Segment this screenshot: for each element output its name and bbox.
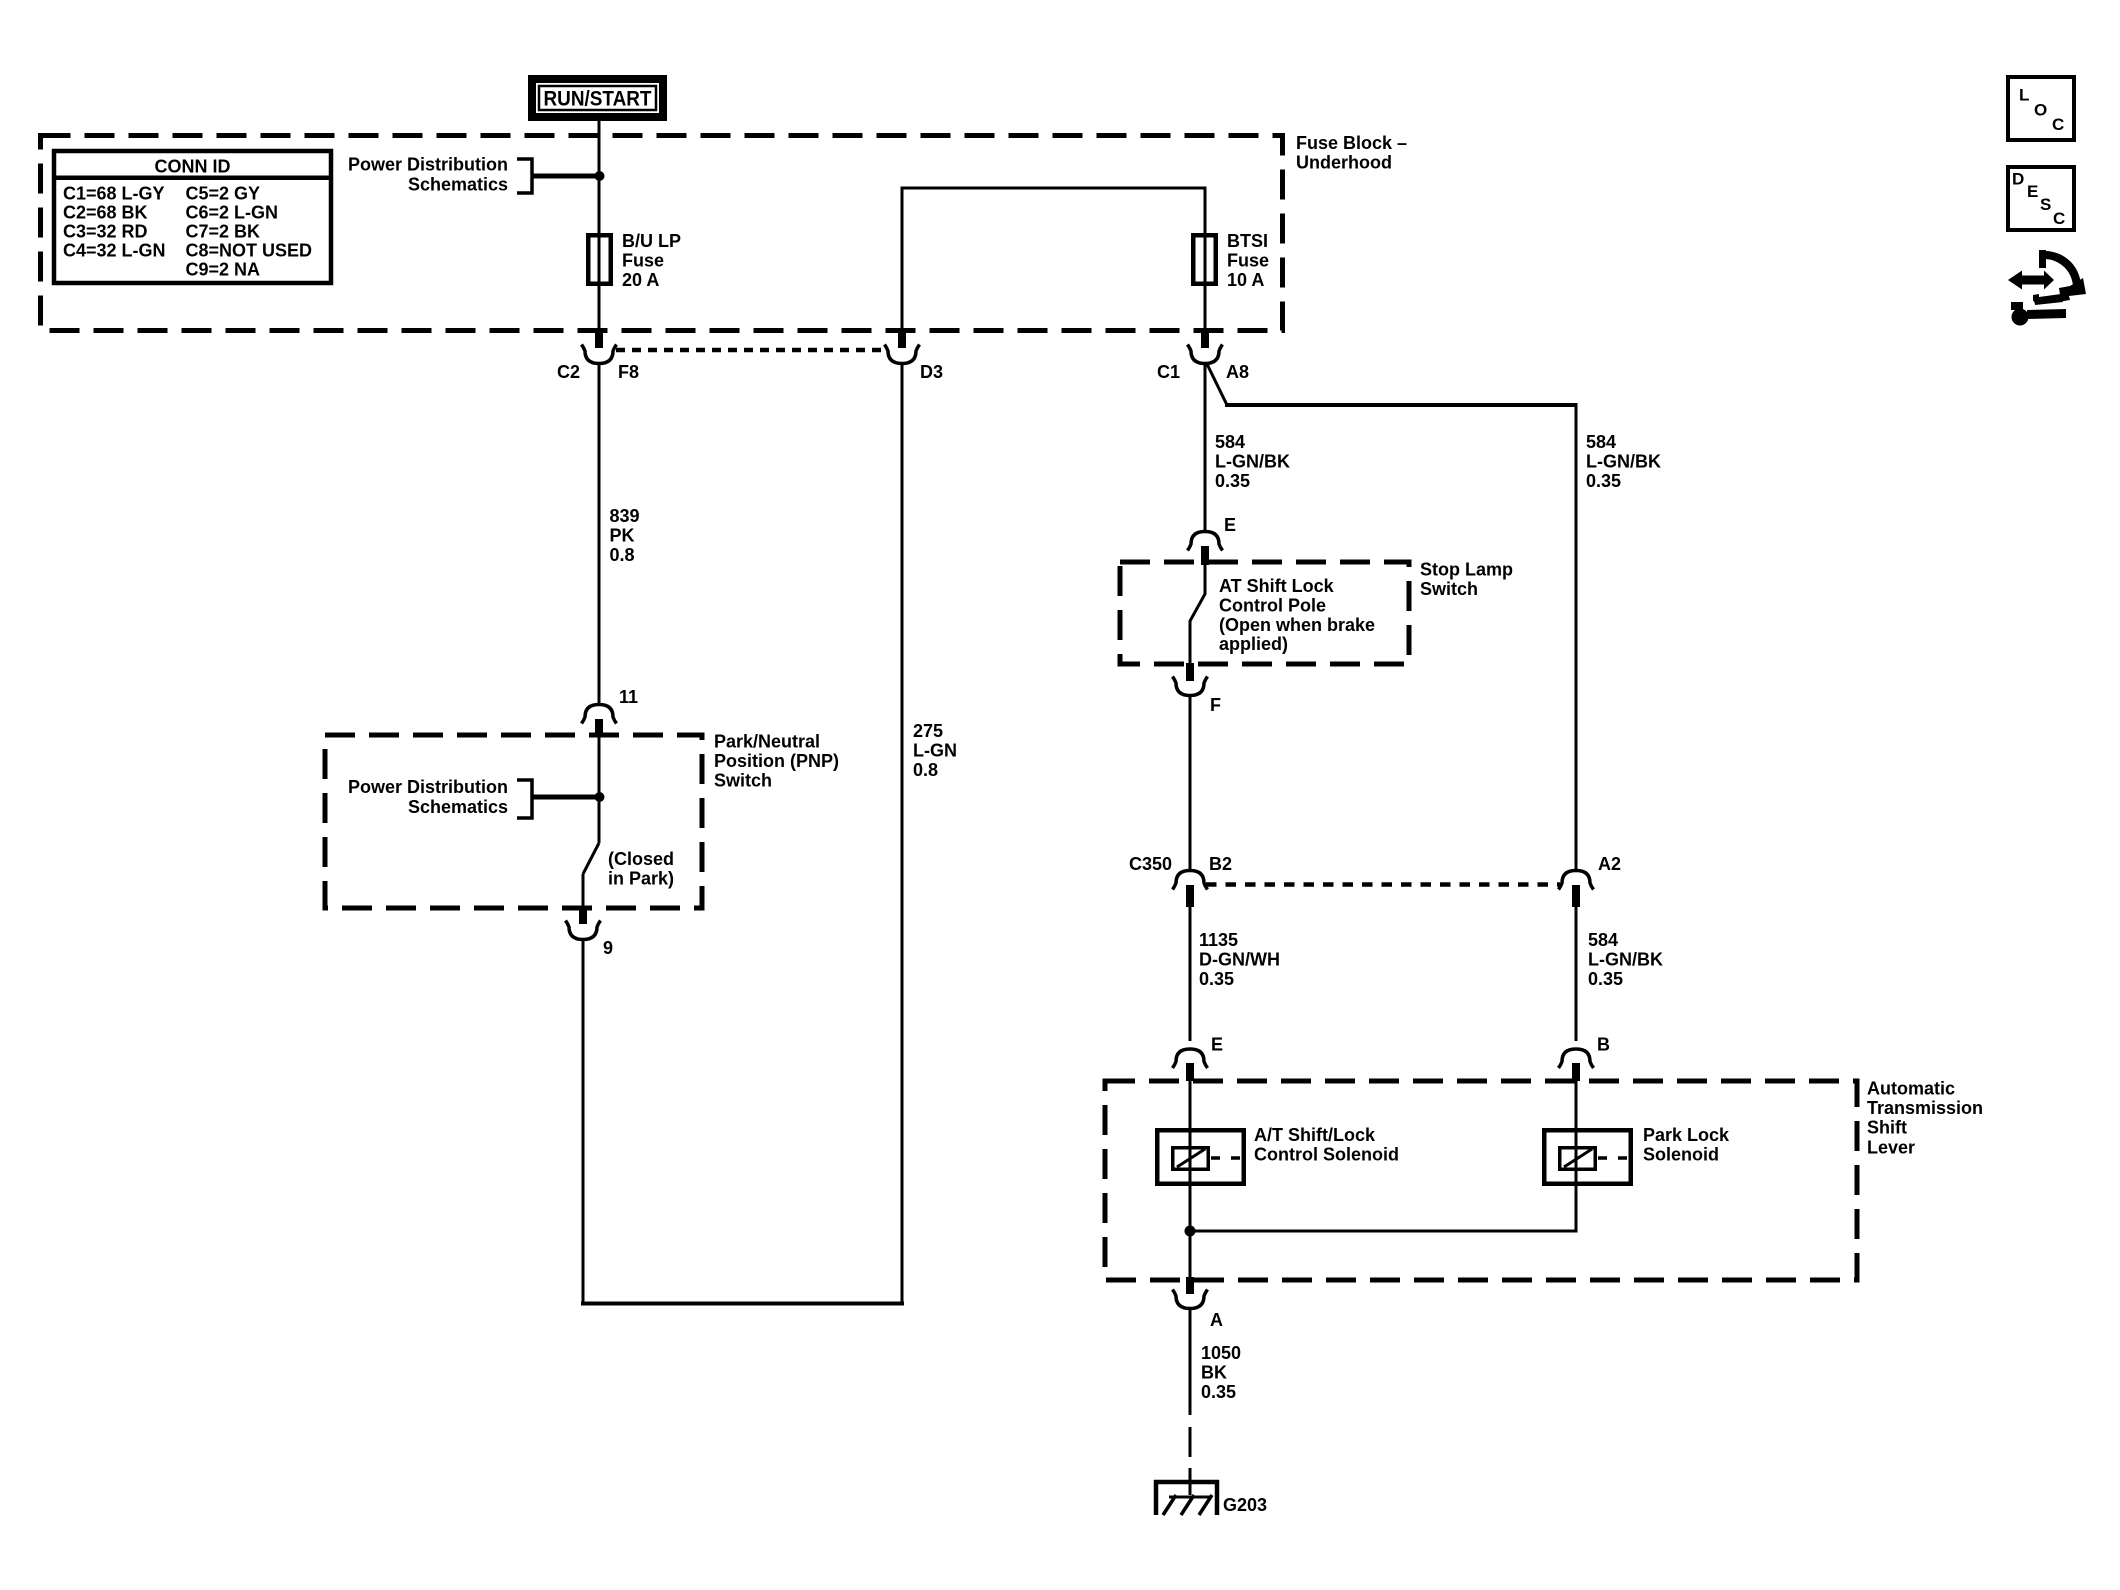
svg-text:1135: 1135: [1199, 930, 1238, 950]
svg-text:C1=68 L-GY: C1=68 L-GY: [63, 183, 165, 203]
svg-text:PK: PK: [610, 525, 635, 545]
svg-text:C: C: [2053, 209, 2065, 228]
svg-text:A8: A8: [1226, 362, 1249, 382]
svg-text:L-GN/BK: L-GN/BK: [1588, 949, 1663, 969]
svg-text:Schematics: Schematics: [408, 797, 508, 817]
svg-text:L: L: [2019, 86, 2029, 105]
svg-text:275: 275: [913, 721, 943, 741]
svg-text:C9=2 NA: C9=2 NA: [186, 259, 261, 279]
svg-text:9: 9: [603, 938, 613, 958]
svg-text:L-GN: L-GN: [913, 740, 957, 760]
svg-text:Control Solenoid: Control Solenoid: [1254, 1144, 1399, 1164]
svg-text:C6=2 L-GN: C6=2 L-GN: [186, 202, 279, 222]
svg-text:F: F: [1210, 695, 1221, 715]
svg-text:Power Distribution: Power Distribution: [348, 777, 508, 797]
svg-text:0.35: 0.35: [1199, 969, 1234, 989]
svg-text:Fuse: Fuse: [1227, 251, 1269, 271]
svg-text:(Open when brake: (Open when brake: [1219, 615, 1375, 635]
svg-text:Control Pole: Control Pole: [1219, 595, 1326, 615]
svg-text:BK: BK: [1201, 1362, 1227, 1382]
svg-text:1050: 1050: [1201, 1343, 1241, 1363]
svg-text:L-GN/BK: L-GN/BK: [1586, 451, 1661, 471]
svg-text:Shift: Shift: [1867, 1118, 1907, 1138]
svg-text:C7=2 BK: C7=2 BK: [186, 221, 261, 241]
svg-text:L-GN/BK: L-GN/BK: [1215, 451, 1290, 471]
svg-text:S: S: [2040, 195, 2051, 214]
svg-text:Transmission: Transmission: [1867, 1098, 1983, 1118]
svg-text:Switch: Switch: [714, 770, 772, 790]
svg-text:O: O: [2034, 100, 2047, 119]
svg-text:C2=68 BK: C2=68 BK: [63, 202, 148, 222]
svg-text:0.35: 0.35: [1588, 969, 1623, 989]
svg-text:Automatic: Automatic: [1867, 1079, 1955, 1099]
svg-text:584: 584: [1588, 930, 1618, 950]
svg-text:applied): applied): [1219, 634, 1288, 654]
svg-text:C350: C350: [1129, 854, 1172, 874]
svg-text:C1: C1: [1157, 362, 1180, 382]
svg-text:D-GN/WH: D-GN/WH: [1199, 949, 1280, 969]
svg-text:E: E: [1224, 515, 1236, 535]
svg-text:Park/Neutral: Park/Neutral: [714, 732, 820, 752]
svg-text:0.8: 0.8: [610, 545, 635, 565]
svg-text:0.35: 0.35: [1201, 1382, 1236, 1402]
svg-text:584: 584: [1586, 432, 1616, 452]
svg-text:C3=32 RD: C3=32 RD: [63, 221, 148, 241]
svg-text:Underhood: Underhood: [1296, 153, 1392, 173]
svg-text:F8: F8: [618, 362, 639, 382]
svg-text:C5=2 GY: C5=2 GY: [186, 183, 261, 203]
svg-text:0.35: 0.35: [1215, 471, 1250, 491]
svg-text:AT Shift Lock: AT Shift Lock: [1219, 576, 1335, 596]
svg-text:C2: C2: [557, 362, 580, 382]
svg-text:11: 11: [619, 687, 638, 707]
svg-text:Fuse: Fuse: [622, 251, 664, 271]
svg-text:RUN/START: RUN/START: [544, 88, 652, 111]
svg-text:Power Distribution: Power Distribution: [348, 155, 508, 175]
svg-text:A: A: [1210, 1310, 1223, 1330]
svg-text:0.35: 0.35: [1586, 471, 1621, 491]
svg-text:A2: A2: [1598, 854, 1621, 874]
svg-text:Position (PNP): Position (PNP): [714, 751, 839, 771]
svg-text:Switch: Switch: [1420, 579, 1478, 599]
svg-text:Park Lock: Park Lock: [1643, 1125, 1730, 1145]
svg-text:C: C: [2052, 115, 2064, 134]
svg-text:Solenoid: Solenoid: [1643, 1144, 1719, 1164]
svg-text:D3: D3: [920, 362, 943, 382]
svg-text:B2: B2: [1209, 854, 1232, 874]
svg-text:584: 584: [1215, 432, 1245, 452]
svg-text:Schematics: Schematics: [408, 175, 508, 195]
svg-text:10 A: 10 A: [1227, 270, 1264, 290]
svg-text:Fuse Block –: Fuse Block –: [1296, 133, 1407, 153]
svg-text:in Park): in Park): [608, 868, 674, 888]
svg-text:B: B: [1597, 1035, 1610, 1055]
svg-text:CONN ID: CONN ID: [155, 156, 231, 176]
svg-text:E: E: [2027, 182, 2038, 201]
svg-text:Lever: Lever: [1867, 1137, 1915, 1157]
svg-text:Stop Lamp: Stop Lamp: [1420, 560, 1513, 580]
svg-text:839: 839: [610, 506, 640, 526]
svg-text:0.8: 0.8: [913, 760, 938, 780]
svg-text:(Closed: (Closed: [608, 849, 674, 869]
svg-text:C8=NOT USED: C8=NOT USED: [186, 240, 313, 260]
svg-text:G203: G203: [1223, 1495, 1267, 1515]
svg-text:A/T Shift/Lock: A/T Shift/Lock: [1254, 1125, 1376, 1145]
svg-text:20 A: 20 A: [622, 270, 659, 290]
svg-text:C4=32 L-GN: C4=32 L-GN: [63, 240, 166, 260]
svg-text:B/U LP: B/U LP: [622, 231, 681, 251]
svg-text:D: D: [2012, 170, 2024, 189]
svg-text:BTSI: BTSI: [1227, 231, 1268, 251]
svg-text:E: E: [1211, 1035, 1223, 1055]
